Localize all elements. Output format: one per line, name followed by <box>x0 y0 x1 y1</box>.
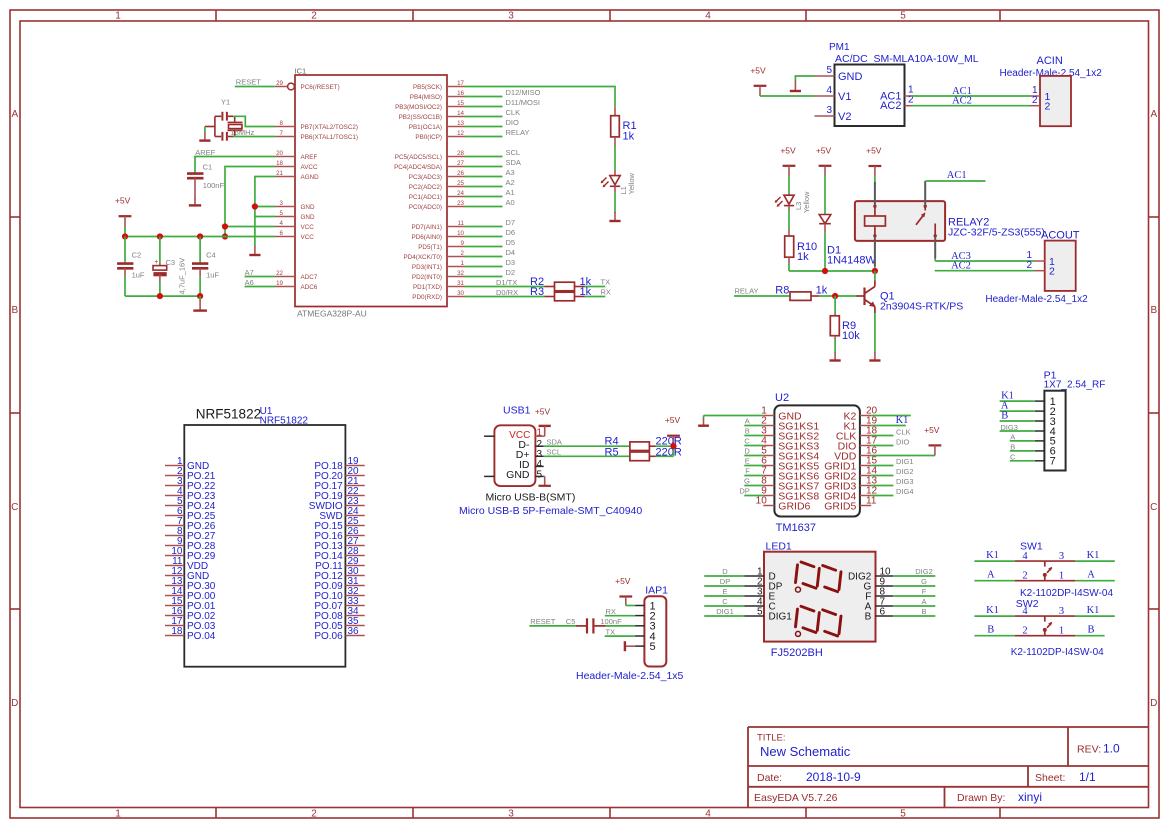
P1 pin 4 net DIG3 <box>1000 423 1056 438</box>
svg-text:16MHz: 16MHz <box>231 128 255 137</box>
U2 pin 12 GRID4 <box>824 486 877 503</box>
IC1 pin 7 PB6(XTAL1/TOSC1) <box>275 130 358 141</box>
svg-text:V2: V2 <box>838 111 851 123</box>
ground Q1 emitter <box>869 352 880 361</box>
svg-text:PB3(MOSI/OC2): PB3(MOSI/OC2) <box>395 104 442 111</box>
wire net C to LED1 pin 4 <box>704 597 744 606</box>
wire net G from LED1 <box>893 577 935 586</box>
switch SW1 label <box>1020 540 1043 552</box>
junction AVCC/rail <box>222 233 228 239</box>
U1 pin 35 PO.05 <box>314 616 364 632</box>
svg-text:2n3904S-RTK/PS: 2n3904S-RTK/PS <box>880 300 963 312</box>
svg-text:PM1: PM1 <box>829 42 850 53</box>
wire net D3 from IC1 <box>465 258 515 267</box>
svg-text:DIG3: DIG3 <box>1000 423 1018 432</box>
svg-text:+5V: +5V <box>750 65 766 75</box>
svg-text:3: 3 <box>1059 551 1064 562</box>
svg-text:20: 20 <box>276 150 283 157</box>
svg-text:5: 5 <box>280 210 284 217</box>
svg-text:DIG1: DIG1 <box>896 457 914 466</box>
svg-text:K1: K1 <box>986 605 999 616</box>
U1 pin 25 PO.15 <box>314 516 364 532</box>
title block EasyEDA V5.7.26 <box>754 792 838 804</box>
svg-text:3: 3 <box>826 105 832 116</box>
ACIN pin 1 <box>1030 85 1051 103</box>
wire net DIG1 from U2 pin 15 <box>871 457 913 466</box>
svg-text:+5V: +5V <box>615 576 631 586</box>
svg-text:100nF: 100nF <box>203 181 225 190</box>
IC1 pin 25 PC2(ADC2) <box>409 180 465 191</box>
svg-text:K1: K1 <box>896 415 909 426</box>
U1 pin 3 PO.22 <box>165 476 216 492</box>
svg-text:D5: D5 <box>506 238 516 247</box>
U1 pin 4 PO.23 <box>165 486 216 502</box>
resistor R10 1k <box>785 229 817 263</box>
IC1 pin 27 PC4(ADC4/SDA) <box>394 160 465 171</box>
svg-text:D: D <box>722 567 728 576</box>
wire emitter to ground <box>874 313 876 353</box>
U1 pin 20 PO.20 <box>314 466 364 482</box>
wire net A2 from IC1 <box>465 178 515 187</box>
wire net DIG2 from LED1 <box>893 567 935 576</box>
U1 pin 28 PO.14 <box>314 546 364 562</box>
svg-text:B: B <box>11 305 18 316</box>
svg-text:IC1: IC1 <box>295 67 307 76</box>
ACIN pin 2 <box>1030 95 1051 113</box>
wire net B to U2 pin 3 <box>744 427 763 436</box>
wire net D2 from IC1 <box>465 268 515 277</box>
U1 pin 11 VDD <box>165 556 208 572</box>
svg-text:B: B <box>1010 443 1015 452</box>
U2 pin 16 VDD <box>834 446 877 463</box>
svg-text:5: 5 <box>757 607 763 618</box>
USB1 pin 1 VCC to +5V <box>509 426 551 441</box>
svg-text:VCC: VCC <box>301 234 315 241</box>
svg-text:+5V: +5V <box>535 406 551 416</box>
svg-text:DP: DP <box>739 487 749 496</box>
svg-text:DIO: DIO <box>506 118 520 127</box>
svg-text:+5V: +5V <box>816 145 832 155</box>
svg-text:RX: RX <box>606 607 616 616</box>
svg-text:4: 4 <box>1022 551 1028 562</box>
svg-text:D2: D2 <box>506 268 516 277</box>
wire +5V to relay coil <box>874 177 876 183</box>
wire PM1 GND pin to ground <box>795 76 814 82</box>
svg-text:DIG2: DIG2 <box>915 567 933 576</box>
LED1 pin 4 C <box>744 597 776 613</box>
svg-text:25: 25 <box>457 180 464 187</box>
wire net DIG2 from U2 pin 14 <box>871 467 913 476</box>
LED L1 Yellow <box>601 170 636 195</box>
svg-text:28: 28 <box>457 150 464 157</box>
IC1 pin 30 PD0(RXD) <box>412 290 465 301</box>
svg-text:RX: RX <box>601 288 611 297</box>
svg-text:K2-1102DP-I4SW-04: K2-1102DP-I4SW-04 <box>1011 647 1104 658</box>
svg-text:PB2(SS/OC1B): PB2(SS/OC1B) <box>399 114 442 121</box>
svg-text:New Schematic: New Schematic <box>760 744 851 759</box>
wire net A3 from IC1 <box>465 168 515 177</box>
LED1 pin 3 E <box>744 587 775 603</box>
IC1 pin 10 PD6(AIN0) <box>412 230 465 241</box>
display LED1 FJ5202BH body <box>764 541 876 659</box>
svg-text:K1: K1 <box>986 550 999 561</box>
PM1 pin 4 V1 <box>815 85 852 103</box>
svg-text:1: 1 <box>1059 626 1064 637</box>
svg-text:16: 16 <box>457 90 464 97</box>
wire +5V rail to IC1 pin6 <box>125 227 275 237</box>
svg-text:10: 10 <box>756 496 768 507</box>
svg-text:ADC7: ADC7 <box>301 274 318 281</box>
svg-text:17: 17 <box>457 80 464 87</box>
U1 pin 5 PO.24 <box>165 496 216 512</box>
svg-text:TITLE:: TITLE: <box>757 733 786 744</box>
svg-text:36: 36 <box>348 626 360 637</box>
wire net K1 right of SW1 <box>1075 550 1115 561</box>
PM1 pin 3 V2 <box>815 105 852 123</box>
svg-text:CLK: CLK <box>896 427 911 436</box>
svg-text:1: 1 <box>115 11 121 22</box>
wire net DP to LED1 pin 2 <box>704 577 744 586</box>
svg-text:AGND: AGND <box>301 174 320 181</box>
svg-text:AC2: AC2 <box>880 100 901 112</box>
U1 pin 31 PO.09 <box>314 576 364 592</box>
wire net DIG1 to LED1 pin 5 <box>704 607 744 616</box>
svg-text:1uF: 1uF <box>132 271 145 280</box>
wire VCC IC1 pin4 <box>225 226 275 228</box>
U1 pin 10 PO.29 <box>165 546 216 562</box>
relay coil bottom pin <box>874 237 876 271</box>
svg-text:2: 2 <box>461 250 465 257</box>
svg-text:C5: C5 <box>566 617 576 626</box>
svg-text:2: 2 <box>1026 260 1032 271</box>
wire net D6 from IC1 <box>465 228 515 237</box>
wire net AC1 PM1 to ACIN <box>912 86 1031 97</box>
junction AVCC/VCC pin4 <box>222 223 228 229</box>
svg-text:PD0(RXD): PD0(RXD) <box>412 294 442 301</box>
U2 pin 7 SG1KS6 <box>761 466 819 483</box>
svg-text:GND: GND <box>506 469 530 481</box>
LED1 pin 2 DP <box>744 577 783 593</box>
U1 pin 33 PO.07 <box>314 596 364 612</box>
wire net C to U2 pin 4 <box>744 437 763 446</box>
svg-text:TX: TX <box>606 627 616 636</box>
svg-text:A: A <box>921 597 926 606</box>
svg-text:3: 3 <box>280 200 284 207</box>
svg-text:A2: A2 <box>506 178 515 187</box>
U1 pin 8 PO.27 <box>165 526 216 542</box>
svg-text:A: A <box>1087 569 1095 580</box>
svg-text:A: A <box>1150 109 1157 120</box>
svg-text:6: 6 <box>280 230 284 237</box>
wire VDD U2 pin16 to +5V <box>871 455 935 457</box>
wire net DIO from IC1 <box>465 118 519 127</box>
wire net K2 from U2 pin20 <box>871 415 911 417</box>
wire net DIG4 from U2 pin 12 <box>871 487 913 496</box>
IC1 pin 24 PC1(ADC1) <box>409 190 465 201</box>
IC1 pin 14 PB2(SS/OC1B) <box>399 110 465 121</box>
PM1 pin 5 GND <box>815 65 863 83</box>
wire net RX <box>585 288 611 297</box>
wire GND IC1 pin5 <box>255 216 275 218</box>
svg-text:A: A <box>987 569 995 580</box>
LED1 pin 5 DIG1 <box>744 607 792 623</box>
svg-text:24: 24 <box>457 190 464 197</box>
svg-text:CLK: CLK <box>506 108 521 117</box>
svg-text:D11/MOSI: D11/MOSI <box>506 98 540 107</box>
resistor R1 1k <box>611 106 637 145</box>
svg-text:Yellow: Yellow <box>627 173 636 195</box>
capacitor load cap bottom (XTAL1) <box>215 132 233 141</box>
svg-text:K1: K1 <box>1087 605 1100 616</box>
svg-text:9: 9 <box>461 240 465 247</box>
wire net RELAY from IC1 <box>465 128 530 137</box>
svg-text:IAP1: IAP1 <box>645 585 668 597</box>
svg-text:DIG1: DIG1 <box>716 607 734 616</box>
U1 pin 23 SWDIO <box>309 496 365 512</box>
ground crystal <box>199 132 210 141</box>
svg-text:C4: C4 <box>206 251 216 260</box>
capacitor C2 1uF <box>117 237 145 297</box>
svg-text:6: 6 <box>880 607 886 618</box>
capacitor C4 1uF <box>192 237 219 297</box>
svg-text:RELAY: RELAY <box>506 128 530 137</box>
crystal Y1 16MHz <box>221 97 255 137</box>
IC1 pin 26 PC3(ADC3) <box>409 170 465 181</box>
U2 pin 19 K1 <box>843 416 877 433</box>
svg-text:C: C <box>744 437 750 446</box>
LED1 pin 8 F <box>865 587 893 603</box>
wire crystal caps common <box>205 116 215 136</box>
svg-text:18: 18 <box>276 160 283 167</box>
svg-text:D6: D6 <box>506 228 516 237</box>
IC1 pin 21 AGND <box>275 170 319 181</box>
U1 pin 30 PO.12 <box>314 566 364 582</box>
wire net DIO from U2 pin17 <box>871 437 909 446</box>
wire net F to U2 pin 7 <box>744 467 763 476</box>
wire R10 to rail <box>788 263 790 271</box>
ground L1 <box>609 212 620 221</box>
svg-text:PD6(AIN0): PD6(AIN0) <box>412 234 442 241</box>
capacitor load cap top (XTAL2) <box>215 112 233 121</box>
svg-text:DIG2: DIG2 <box>896 467 914 476</box>
U1 pin 34 PO.08 <box>314 606 364 622</box>
svg-text:5: 5 <box>826 65 832 76</box>
svg-text:C3: C3 <box>166 258 176 267</box>
svg-text:D7: D7 <box>506 218 516 227</box>
svg-text:5: 5 <box>900 11 906 22</box>
LED L3 Yellow <box>775 176 811 213</box>
ground USB1 pin5 <box>539 476 551 485</box>
svg-text:4: 4 <box>280 220 284 227</box>
svg-text:A: A <box>745 417 750 426</box>
junction rail at +5V/C2 <box>122 233 128 239</box>
svg-text:15: 15 <box>457 100 464 107</box>
LED1 seven-segment digit group lower <box>796 606 842 636</box>
IAP1 pin 4 <box>635 631 656 643</box>
resistor R8 1k <box>775 285 827 301</box>
ground PM1 <box>790 81 801 91</box>
svg-text:NRF51822: NRF51822 <box>196 407 261 422</box>
ACOUT pin 2 <box>1026 260 1055 278</box>
svg-text:R8: R8 <box>775 285 789 297</box>
wire AGND IC1 pin21 <box>255 177 275 247</box>
LED1 pin 10 DIG2 <box>848 567 893 583</box>
U2 pin 8 SG1KS7 <box>761 476 819 493</box>
wire net B from LED1 <box>893 607 935 616</box>
svg-text:A7: A7 <box>245 268 254 277</box>
wire XTAL2 to IC1 pin8 <box>233 116 275 126</box>
IAP1 pin 3 <box>635 621 656 633</box>
junction rail at C4 <box>197 233 203 239</box>
svg-text:REV:: REV: <box>1077 744 1101 756</box>
svg-text:PC3(ADC3): PC3(ADC3) <box>409 174 442 181</box>
svg-text:21: 21 <box>276 170 283 177</box>
svg-text:D3: D3 <box>506 258 516 267</box>
power +5V rail flag <box>115 196 131 227</box>
connector P1 1X7_2.54_RF <box>1044 369 1106 470</box>
U2 pin 9 SG1KS8 <box>761 486 819 503</box>
U1 pin 12 GND <box>165 566 209 582</box>
junction gnd rail C3 <box>157 293 163 299</box>
wire net A7 to IC1 pin22 <box>245 268 275 277</box>
U2 pin 2 SG1KS1 <box>761 416 819 433</box>
wire R9 to ground <box>834 340 836 353</box>
relay coil top pin <box>874 182 876 205</box>
svg-text:D4: D4 <box>506 248 516 257</box>
IC1 pin 32 PD2(INT0) <box>412 270 465 281</box>
capacitor C5 100nF <box>566 617 622 634</box>
svg-text:12: 12 <box>457 130 464 137</box>
svg-text:11: 11 <box>458 220 465 227</box>
power +5V at relay coil <box>866 146 882 177</box>
IAP1 pin 5 <box>635 641 656 653</box>
svg-text:+: + <box>154 259 158 266</box>
power module PM1 AC/DC_SM-MLA10A-10W_ML <box>829 42 979 126</box>
svg-text:DIO: DIO <box>896 437 910 446</box>
svg-text:AC/DC_SM-MLA10A-10W_ML: AC/DC_SM-MLA10A-10W_ML <box>835 53 979 65</box>
svg-text:D1/TX: D1/TX <box>496 278 517 287</box>
svg-text:GND: GND <box>301 214 315 221</box>
IC1 pin 15 PB3(MOSI/OC2) <box>395 100 465 111</box>
wire net A1 from IC1 <box>465 188 515 197</box>
title block Drawn By: xinyi <box>957 790 1042 804</box>
svg-text:A3: A3 <box>506 168 515 177</box>
svg-text:B: B <box>1001 410 1008 421</box>
svg-text:R5: R5 <box>605 446 619 458</box>
U2 pin 3 SG1KS2 <box>761 426 819 443</box>
P1 pin 2 net A <box>1000 400 1056 418</box>
svg-text:31: 31 <box>457 280 464 287</box>
capacitor C1 100nF <box>187 163 224 200</box>
svg-text:PD2(INT0): PD2(INT0) <box>412 274 442 281</box>
svg-text:13: 13 <box>457 120 464 127</box>
ground AGND <box>249 246 260 255</box>
U2 pin 20 K2 <box>843 406 877 423</box>
U2 pin 1 GND <box>761 406 802 423</box>
power +5V at R4/R5 <box>665 415 681 446</box>
IC1 pin 12 PB0(ICP) <box>415 130 465 141</box>
wire IC1 pin17 to R1 <box>465 87 615 107</box>
svg-text:PB1(OC1A): PB1(OC1A) <box>409 124 442 131</box>
svg-text:11: 11 <box>866 496 877 507</box>
IC1 pin 3 GND <box>275 200 315 211</box>
wire net SDA from IC1 <box>465 158 521 167</box>
wire net AC2 PM1 to ACIN <box>912 96 1031 107</box>
relay RELAY2 JZC-32F/5-ZS3(555) <box>855 201 1045 241</box>
svg-text:B: B <box>1087 624 1094 635</box>
junction coil/collector <box>872 268 878 274</box>
wire net K1 left of SW1 <box>974 550 1015 561</box>
resistor R3 1k <box>530 286 592 301</box>
wire net RESET to IC1 pin29 <box>235 77 275 86</box>
P1 pin 7 net C <box>1010 453 1056 468</box>
wire net D0/RX from IC1 pin30 to R3 <box>465 288 545 297</box>
svg-text:G: G <box>921 577 927 586</box>
LED1 pin 1 D <box>744 567 776 583</box>
wire GND IC1 pin3 <box>255 206 275 208</box>
svg-text:1k: 1k <box>797 251 809 263</box>
U1 pin 15 PO.01 <box>165 596 216 612</box>
svg-text:SCL: SCL <box>506 148 521 157</box>
svg-text:PC1(ADC1): PC1(ADC1) <box>409 194 442 201</box>
svg-text:Micro USB-B 5P-Female-SMT_C409: Micro USB-B 5P-Female-SMT_C40940 <box>459 505 642 517</box>
U2 pin 18 CLK <box>836 426 878 443</box>
wire net CLK from IC1 <box>465 108 520 117</box>
wire net TX to IAP1 pin4 <box>605 627 635 636</box>
svg-text:DIG3: DIG3 <box>896 477 914 486</box>
svg-text:32: 32 <box>457 270 464 277</box>
wire net D7 from IC1 <box>465 218 515 227</box>
svg-text:Micro USB-B(SMT): Micro USB-B(SMT) <box>486 492 576 504</box>
IC1 pin 2 PD4(XCK/T0) <box>404 250 466 261</box>
wire net A left of SW1 <box>974 569 1015 580</box>
U2 pin 13 GRID3 <box>824 476 877 493</box>
wire net D4 from IC1 <box>465 248 515 257</box>
svg-text:PB7(XTAL2/TOSC2): PB7(XTAL2/TOSC2) <box>301 124 359 131</box>
svg-text:DIG1: DIG1 <box>769 612 793 623</box>
svg-text:AC1: AC1 <box>947 170 967 181</box>
IC1 pin 19 ADC6 <box>275 280 318 291</box>
svg-text:PD7(AIN1): PD7(AIN1) <box>412 224 442 231</box>
svg-text:7: 7 <box>1050 456 1056 468</box>
svg-text:1X7_2.54_RF: 1X7_2.54_RF <box>1044 379 1106 390</box>
wire R8 to Q1 base <box>819 295 856 297</box>
svg-text:Yellow: Yellow <box>802 191 811 213</box>
svg-text:SDA: SDA <box>506 158 521 167</box>
svg-text:14: 14 <box>457 110 464 117</box>
IC1 pin 28 PC5(ADC5/SCL) <box>395 150 465 161</box>
IC1 pin 8 PB7(XTAL2/TOSC2) <box>275 120 358 131</box>
svg-text:Header-Male-2.54_1x2: Header-Male-2.54_1x2 <box>985 294 1088 305</box>
wire net D12/MISO from IC1 <box>465 88 541 97</box>
svg-text:3: 3 <box>508 11 514 22</box>
wire net DIG3 from U2 pin 13 <box>871 477 913 486</box>
svg-text:K1: K1 <box>1087 550 1100 561</box>
wire net RELAY to R8 <box>734 287 790 296</box>
wire coil drive rail <box>789 270 875 272</box>
wire net E to U2 pin 6 <box>744 457 763 466</box>
svg-text:26: 26 <box>457 170 464 177</box>
title block Date: 2018-10-9 <box>757 770 861 784</box>
svg-text:+5V: +5V <box>924 425 940 435</box>
ground C1 <box>189 198 201 205</box>
svg-text:xinyi: xinyi <box>1018 790 1042 804</box>
svg-text:18: 18 <box>171 626 183 637</box>
title block <box>748 727 1149 808</box>
U1 pin 14 PO.00 <box>165 586 216 602</box>
P1 pin 3 net B <box>1000 410 1056 428</box>
U1 pin 19 PO.18 <box>314 456 364 472</box>
